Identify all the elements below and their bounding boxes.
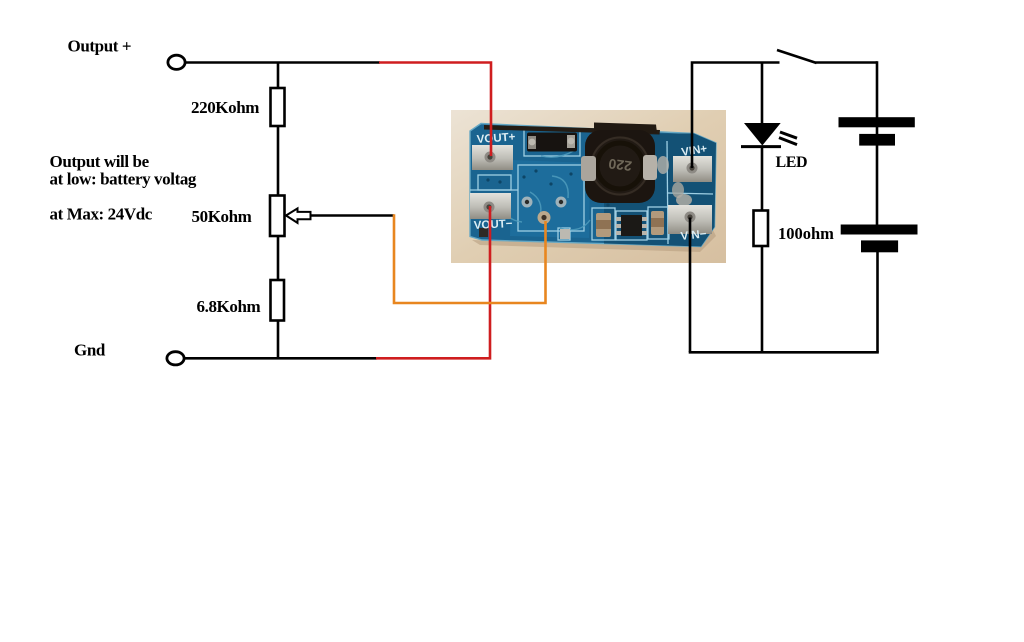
traces curves [498,150,590,230]
wire: output+ terminal to divider (black) [185,61,380,64]
svg-text:Output +: Output + [68,37,132,56]
VIN- solder pad [668,205,712,234]
feedback pad (orange wire target) [538,211,551,224]
svg-text:VOUT−: VOUT− [474,218,514,232]
SMD capacitor right [651,211,664,235]
terminal Output+ [168,55,185,69]
wire: LED to resistor to bottom [761,146,764,352]
SMD capacitor left [596,213,611,237]
wire: Gnd horizontal [184,357,377,360]
SMD IC [621,215,642,236]
VOUT+ solder pad [472,145,513,170]
PCB shading right [604,134,716,247]
module photo MT3608 boost converter [451,110,726,263]
small bits bottom left [560,229,570,239]
wire: switch to battery [816,61,878,64]
PCB light panel center-left [510,160,590,238]
terminal Gnd [167,352,184,365]
photo background [451,110,726,263]
svg-text:6.8Kohm: 6.8Kohm [197,297,261,316]
svg-text:Output will be: Output will be [50,152,150,171]
PCB board [470,124,716,247]
svg-text:Gnd: Gnd [74,341,106,360]
inductor side terminals [581,156,596,181]
svg-text:at low: battery voltag: at low: battery voltag [50,169,197,188]
svg-text:100ohm: 100ohm [778,224,834,243]
round pads in silkscreen box [522,197,533,208]
LED cathode bar [741,145,781,148]
svg-text:220Kohm: 220Kohm [191,98,259,117]
svg-text:LED: LED [776,154,808,171]
switch blade [777,50,817,63]
potentiometer 50Kohm body [270,196,285,237]
solder blobs right of inductor [657,156,669,174]
resistor R2 6.8Kohm [271,280,285,321]
wire red: VOUT- to Gnd [376,206,490,358]
silkscreen traces [470,129,713,244]
silkscreen texts [474,131,709,243]
wire: divider vertical chain [277,63,280,359]
LED light marks [780,132,797,138]
svg-text:at Max: 24Vdc: at Max: 24Vdc [50,204,153,223]
inductor ring [590,136,650,196]
diode component top-left [527,133,577,152]
resistor R1 220Kohm [271,88,285,126]
VIN+ solder pad [673,156,712,182]
battery B2 plates [841,225,918,235]
VOUT- solder pad [470,193,511,219]
svg-text:220: 220 [607,156,632,175]
PCB shadow [472,230,716,252]
potentiometer wiper arrow [286,208,311,223]
wire: top right rail to VIN+ [692,63,780,169]
wire: LED branch vertical [761,63,764,125]
wire red: output+ to VOUT+ [379,63,491,157]
wire: VIN- down [689,218,692,353]
wire: pot wiper to node [286,214,394,217]
wire orange: wiper to feedback pad [394,214,546,303]
battery B1 plates [839,117,915,127]
wire: battery column segments [876,61,879,118]
dark top band (inductor overhang) [484,125,660,135]
vias [486,169,609,206]
svg-text:50Kohm: 50Kohm [192,207,252,226]
inductor body [585,130,655,203]
wire: bottom right horizontal [689,351,879,354]
LED D1 triangle [744,123,781,146]
resistor R3 100ohm [754,211,769,247]
